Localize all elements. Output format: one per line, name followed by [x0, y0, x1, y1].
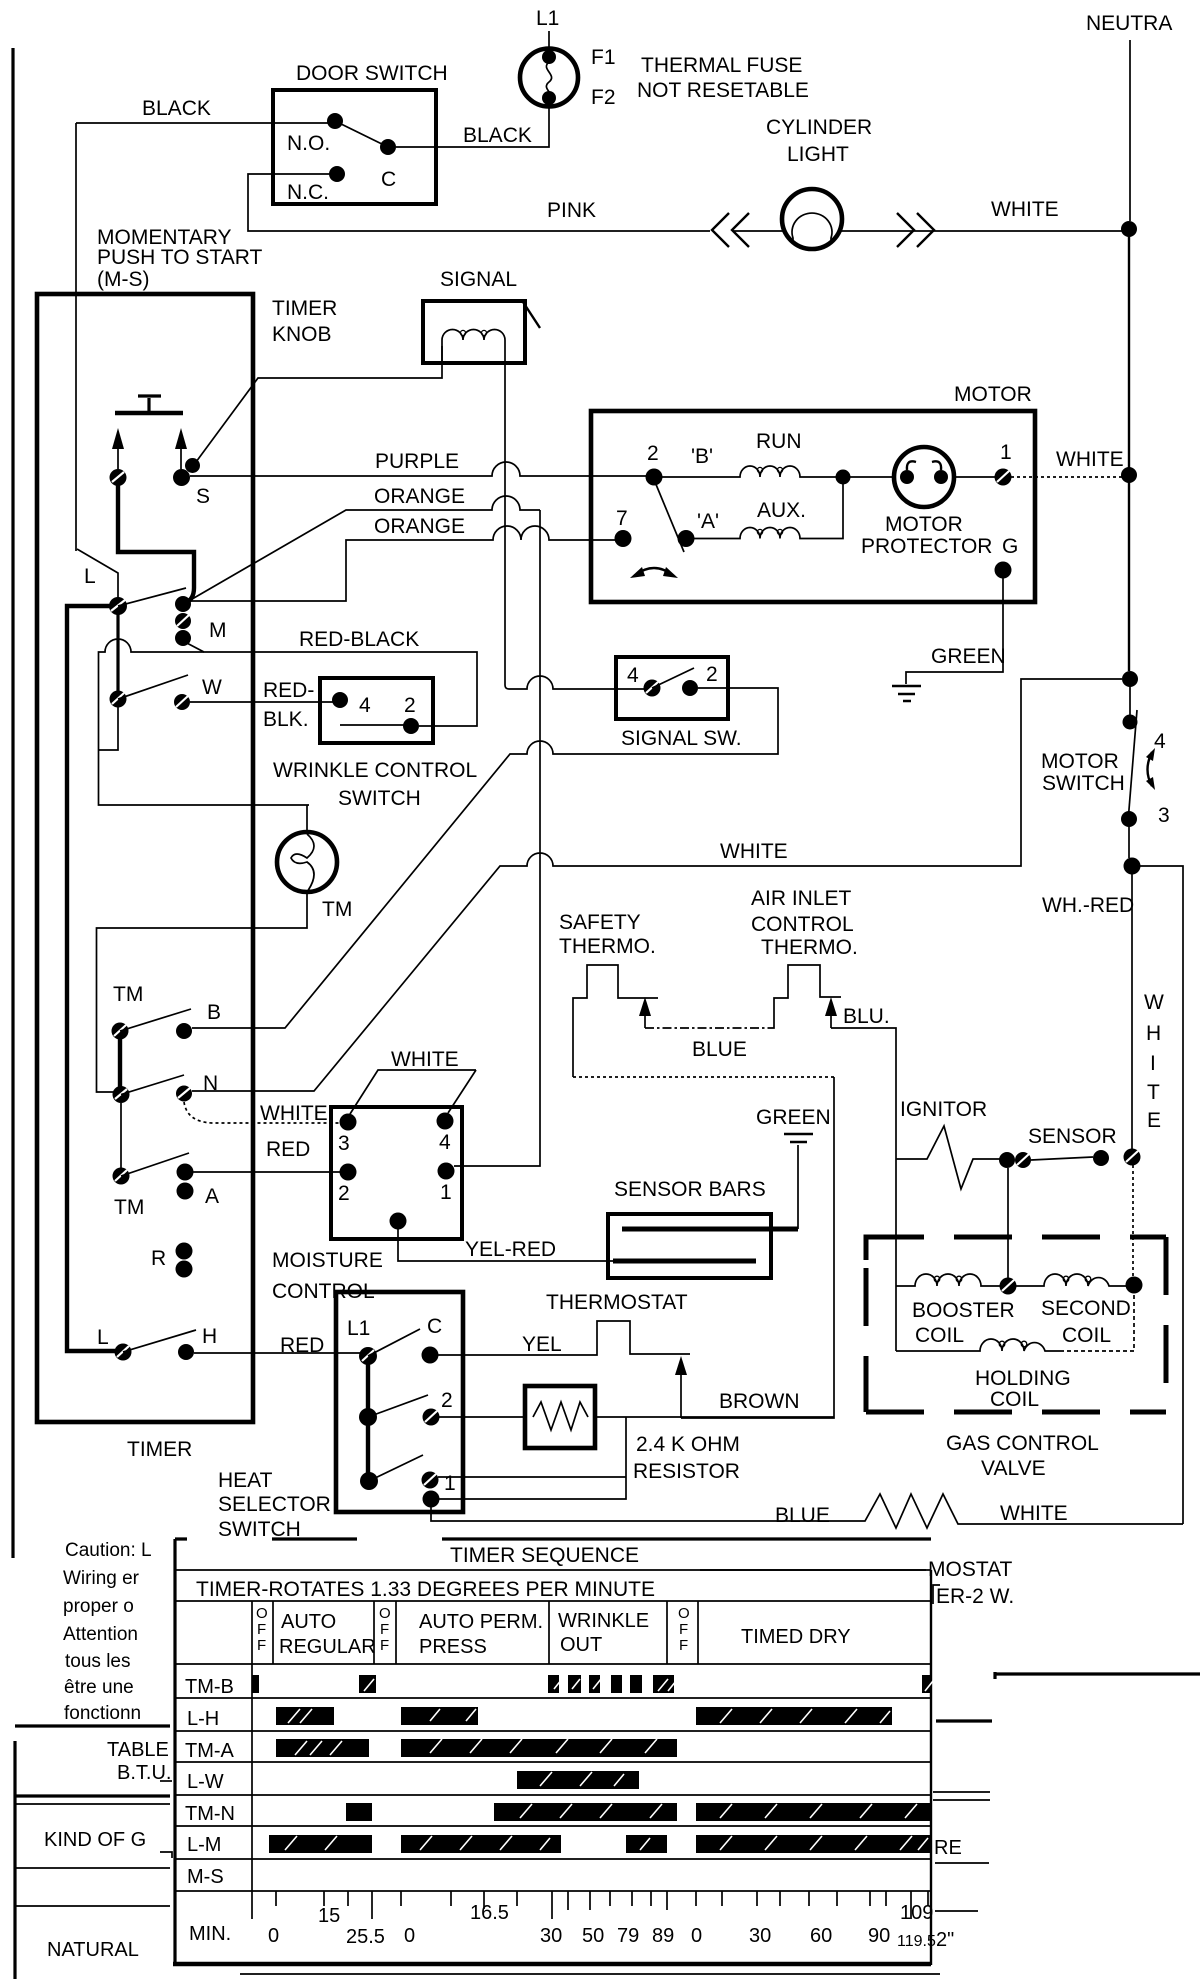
wrinkle control switch caption — [273, 759, 477, 810]
motor protector caption — [861, 513, 992, 558]
blade TM-A — [121, 1153, 189, 1176]
svg-text:WHITE: WHITE — [391, 1048, 459, 1071]
svg-text:TIMER SEQUENCE: TIMER SEQUENCE — [450, 1544, 639, 1567]
timer knob pointer line — [196, 346, 442, 462]
air inlet thermostat arrow — [825, 997, 837, 1028]
blade L-M — [118, 588, 186, 606]
svg-text:N: N — [203, 1072, 218, 1095]
thick link TM-B to N — [118, 1038, 122, 1088]
blade W — [118, 675, 188, 699]
header WRINKLE OUT — [558, 1610, 649, 1656]
svg-text:SELECTOR: SELECTOR — [218, 1493, 331, 1516]
svg-text:30: 30 — [749, 1925, 771, 1947]
moisture control box — [331, 1107, 462, 1239]
svg-text:RED-: RED- — [263, 679, 314, 702]
wire orange 1 drop to moisture 1 — [454, 510, 540, 1166]
moisture bottom terminal — [390, 1213, 407, 1230]
wire red H to heat selector L1 — [194, 1352, 360, 1354]
svg-text:BLK.: BLK. — [263, 708, 309, 731]
svg-text:4: 4 — [439, 1131, 451, 1154]
left table divider line 2 — [15, 1905, 170, 1907]
svg-text:16.5: 16.5 — [470, 1902, 509, 1924]
svg-text:PROTECTOR: PROTECTOR — [861, 535, 992, 558]
svg-text:15: 15 — [318, 1905, 340, 1927]
svg-text:COIL: COIL — [915, 1324, 964, 1347]
door switch N.C. terminal — [329, 166, 345, 182]
wire into cylinder light — [733, 230, 783, 232]
moisture control caption — [272, 1249, 383, 1303]
junction dot neutral-pink — [1121, 221, 1137, 237]
svg-text:I: I — [1150, 1052, 1156, 1075]
svg-text:1: 1 — [444, 1472, 456, 1495]
wire red A to moisture 2 — [193, 1171, 340, 1173]
blade N — [121, 1075, 184, 1095]
svg-text:C: C — [381, 168, 396, 191]
svg-text:TABLE: TABLE — [107, 1739, 169, 1761]
svg-text:MOSTAT: MOSTAT — [928, 1558, 1013, 1581]
svg-text:COIL: COIL — [1062, 1324, 1111, 1347]
timer sequence table frame — [173, 1539, 940, 1974]
sensor bars box — [608, 1214, 771, 1278]
motor switch contact 3 — [1121, 811, 1137, 827]
wire white from switch-4 junction — [192, 679, 1122, 1091]
svg-text:BROWN: BROWN — [719, 1390, 800, 1413]
L-W row bar — [517, 1771, 639, 1789]
right cut line fragment 3 — [935, 1862, 989, 1864]
right cut line fragments 2 — [933, 1792, 990, 1800]
wire W to wrinkle switch 4 — [190, 701, 334, 703]
svg-text:H: H — [202, 1325, 217, 1348]
svg-text:SAFETY: SAFETY — [559, 911, 641, 934]
heat selector 2 dot — [423, 1409, 440, 1426]
motor switch rotation arrow — [1146, 748, 1155, 790]
svg-text:WHITE: WHITE — [1056, 448, 1124, 471]
heat selector C dot — [422, 1347, 439, 1364]
safety thermostat symbol — [573, 965, 658, 1077]
svg-text:M: M — [209, 619, 227, 642]
wire sensor right down to second coil — [1132, 1165, 1134, 1278]
wire neutral gap fills — [1129, 686, 1130, 858]
booster coil — [896, 1274, 1000, 1286]
contact dot N-left — [113, 1086, 130, 1103]
svg-text:WH.-RED: WH.-RED — [1042, 894, 1134, 917]
wire neutral thin down to sensor — [1131, 874, 1133, 1152]
heat selector 1 dot — [422, 1472, 439, 1489]
svg-text:L1: L1 — [536, 7, 559, 30]
svg-text:1: 1 — [1000, 441, 1012, 464]
air inlet control thermo caption — [751, 887, 858, 959]
svg-text:60: 60 — [810, 1925, 832, 1947]
svg-text:SENSOR: SENSOR — [1028, 1125, 1117, 1148]
svg-text:'B': 'B' — [691, 445, 713, 468]
svg-text:WRINKLE: WRINKLE — [558, 1610, 649, 1632]
wrinkle control switch box — [320, 678, 433, 743]
svg-text:MIN.: MIN. — [189, 1923, 231, 1945]
chevrons right of cylinder light — [897, 213, 934, 247]
svg-text:TM-A: TM-A — [185, 1740, 235, 1762]
thermostat arrow — [675, 1356, 687, 1418]
svg-text:DOOR SWITCH: DOOR SWITCH — [296, 62, 448, 85]
svg-text:L-M: L-M — [187, 1834, 221, 1856]
contact dot W-left — [110, 691, 127, 708]
right cut table top border — [995, 1672, 1200, 1679]
blade L-H — [123, 1330, 196, 1352]
wire orange 2 — [191, 526, 616, 601]
contact dot W — [174, 694, 190, 710]
wire neutral down — [1128, 482, 1130, 671]
svg-text:BLUE: BLUE — [775, 1504, 830, 1527]
svg-text:L-W: L-W — [187, 1771, 224, 1793]
svg-text:2.4 K OHM: 2.4 K OHM — [636, 1433, 740, 1456]
wire protector leads — [850, 476, 996, 478]
svg-text:RE: RE — [934, 1837, 962, 1859]
contact dots A — [177, 1164, 194, 1200]
svg-text:HEAT: HEAT — [218, 1469, 273, 1492]
ground symbol (green) — [784, 1134, 813, 1229]
thick link L to W — [116, 614, 119, 694]
plunger arrow left — [112, 428, 124, 469]
svg-text:MOTOR: MOTOR — [954, 383, 1032, 406]
signal coil — [442, 330, 505, 363]
motor switch caption — [1041, 750, 1125, 795]
signal box — [423, 301, 525, 363]
heat selector blade low-1 — [369, 1455, 423, 1481]
momentary push to start caption — [97, 226, 262, 291]
safety thermo caption — [559, 911, 656, 958]
svg-text:M-S: M-S — [187, 1866, 224, 1888]
svg-text:2: 2 — [706, 663, 718, 686]
svg-text:TM-N: TM-N — [185, 1803, 235, 1825]
tick by B.T.U. — [160, 1780, 172, 1782]
TM-N row bars — [346, 1803, 931, 1821]
svg-text:MOTOR: MOTOR — [885, 513, 963, 536]
svg-text:4: 4 — [627, 664, 639, 687]
svg-text:GREEN: GREEN — [756, 1106, 831, 1129]
svg-text:YEL: YEL — [522, 1333, 562, 1356]
svg-text:2": 2" — [936, 1929, 954, 1951]
motor box — [591, 411, 1035, 602]
minute scale ticks — [252, 1891, 928, 1919]
svg-text:TIMER: TIMER — [272, 297, 337, 320]
wire signal switch return to TM-B — [192, 688, 778, 1028]
wire heat selector 1 loop — [438, 1476, 626, 1478]
wire N white to moisture 3 — [184, 1102, 340, 1123]
label RED-BLK. — [263, 679, 314, 731]
right cut line fragment 1 — [936, 1719, 992, 1722]
heat selector bottom terminal — [423, 1491, 440, 1508]
wire TM lamp bottom to N — [97, 892, 308, 1092]
svg-text:SENSOR BARS: SENSOR BARS — [614, 1178, 766, 1201]
wire safety thermo to brown riser — [573, 1076, 834, 1078]
cylinder light caption — [766, 116, 872, 166]
sensor contact dots right — [1093, 1149, 1141, 1167]
signal box corner tick — [523, 302, 540, 328]
contact dot TM-B — [112, 1023, 129, 1040]
svg-text:RESISTOR: RESISTOR — [633, 1460, 740, 1483]
junction dot run-aux — [836, 470, 851, 485]
svg-text:NATURAL: NATURAL — [47, 1939, 139, 1961]
header OFF 1 — [256, 1605, 268, 1654]
svg-text:COIL: COIL — [990, 1388, 1039, 1411]
svg-text:MOTOR: MOTOR — [1041, 750, 1119, 773]
svg-text:PURPLE: PURPLE — [375, 450, 459, 473]
wire blue to gas valve zigzag — [431, 1494, 1183, 1528]
svg-text:WHITE: WHITE — [1000, 1502, 1068, 1525]
thermal fuse caption — [637, 54, 809, 102]
motor terminal 1 — [995, 469, 1012, 486]
TM lamp — [277, 832, 337, 892]
svg-text:MOISTURE: MOISTURE — [272, 1249, 383, 1272]
wire L1 to thermal fuse — [548, 31, 550, 49]
svg-text:F: F — [257, 1637, 266, 1654]
heat selector L1 dot — [359, 1347, 377, 1365]
sensor contact dots left — [999, 1152, 1031, 1168]
svg-text:S: S — [196, 485, 210, 508]
svg-text:W: W — [1144, 991, 1164, 1014]
svg-text:109: 109 — [900, 1902, 933, 1924]
resistor box — [525, 1386, 595, 1448]
svg-text:(M-S): (M-S) — [97, 268, 149, 291]
timer knob caption — [272, 297, 337, 346]
svg-text:VALVE: VALVE — [981, 1457, 1046, 1480]
svg-text:2: 2 — [338, 1182, 350, 1205]
svg-text:GAS CONTROL: GAS CONTROL — [946, 1432, 1099, 1455]
wire yel-red to sensor bars — [398, 1229, 616, 1261]
svg-text:50: 50 — [582, 1925, 604, 1947]
svg-text:C: C — [427, 1315, 442, 1338]
signal switch terminal 4 — [644, 680, 661, 697]
booster coil caption — [912, 1299, 1015, 1347]
svg-text:LIGHT: LIGHT — [787, 143, 849, 166]
svg-text:TIMED DRY: TIMED DRY — [741, 1626, 851, 1648]
svg-text:SIGNAL SW.: SIGNAL SW. — [621, 727, 742, 750]
svg-text:KIND OF G: KIND OF G — [44, 1829, 146, 1851]
wire signal right lead down — [504, 343, 506, 685]
svg-text:2: 2 — [647, 442, 659, 465]
holding coil caption — [975, 1367, 1071, 1411]
wire resistor to brown riser — [595, 1416, 834, 1418]
signal switch terminal 2 — [682, 680, 698, 696]
run winding coil — [662, 466, 836, 477]
minute scale numbers — [268, 1902, 933, 1948]
heat selector caption — [218, 1469, 331, 1541]
door switch blade — [335, 121, 388, 147]
svg-text:0: 0 — [404, 1925, 415, 1947]
svg-text:YEL-RED: YEL-RED — [465, 1238, 556, 1261]
svg-text:NOT RESETABLE: NOT RESETABLE — [637, 79, 809, 102]
svg-text:G: G — [1002, 535, 1018, 558]
wire neutral mid — [1128, 236, 1130, 468]
svg-text:fonctionn: fonctionn — [64, 1703, 141, 1724]
thin link N to TM-A — [120, 1103, 122, 1168]
svg-text:Attention: Attention — [63, 1624, 138, 1645]
svg-text:L: L — [84, 565, 96, 588]
svg-text:BLU.: BLU. — [843, 1005, 890, 1028]
second coil caption — [1041, 1297, 1131, 1347]
svg-text:1: 1 — [440, 1181, 452, 1204]
svg-text:F: F — [679, 1621, 688, 1638]
blade TM-B — [120, 1009, 191, 1031]
motor blade 2-A — [655, 482, 684, 552]
svg-text:R: R — [151, 1247, 166, 1270]
TM-B row bars — [252, 1675, 931, 1693]
svg-text:KNOB: KNOB — [272, 323, 332, 346]
caution text block — [63, 1540, 152, 1724]
svg-text:être une: être une — [64, 1677, 134, 1698]
second coil — [1016, 1274, 1127, 1286]
svg-text:tous les: tous les — [65, 1651, 130, 1672]
header OFF 3 — [678, 1605, 690, 1654]
svg-text:THERMOSTAT: THERMOSTAT — [546, 1291, 688, 1314]
wire orange 1 — [187, 496, 540, 602]
contact dot H — [178, 1344, 194, 1360]
heat selector blade L1-C — [368, 1329, 420, 1356]
svg-text:TIMER: TIMER — [127, 1438, 192, 1461]
door switch C terminal — [380, 139, 396, 155]
wrinkle blade — [340, 724, 404, 726]
svg-text:TM: TM — [322, 898, 352, 921]
svg-text:O: O — [379, 1605, 391, 1622]
junction dot booster-second — [1000, 1278, 1017, 1295]
svg-text:0: 0 — [691, 1925, 702, 1947]
svg-text:CYLINDER: CYLINDER — [766, 116, 872, 139]
thermal fuse F1-F2 — [520, 49, 578, 107]
moisture terminal 4 — [437, 1113, 454, 1130]
svg-text:'A': 'A' — [697, 510, 719, 533]
heat selector mid dot — [359, 1408, 377, 1426]
wire blu down left side of valve — [895, 1159, 897, 1351]
header column dividers — [252, 1601, 698, 1891]
svg-text:SIGNAL: SIGNAL — [440, 268, 517, 291]
right margin bracket — [933, 1585, 940, 1604]
svg-text:F: F — [380, 1637, 389, 1654]
left page border line — [13, 48, 15, 1979]
wire sensor left down to coils — [1007, 1168, 1009, 1279]
heat selector blade mid-2 — [368, 1395, 428, 1417]
contact dot B — [176, 1023, 192, 1039]
wire signal to signal switch 4 — [505, 676, 645, 689]
wire heat selector 2 to resistor — [439, 1416, 525, 1418]
svg-text:PUSH TO START: PUSH TO START — [97, 246, 262, 269]
svg-text:AIR INLET: AIR INLET — [751, 887, 852, 910]
svg-text:SECOND: SECOND — [1041, 1297, 1131, 1320]
wire out of cylinder light — [841, 230, 1122, 232]
wire white right drop — [1132, 866, 1183, 1524]
sensor link wire — [1031, 1157, 1093, 1160]
wire fuse to door switch C — [396, 107, 549, 147]
moisture terminal 1 — [438, 1163, 455, 1180]
left table divider lines — [15, 1794, 170, 1797]
svg-text:PRESS: PRESS — [419, 1636, 487, 1658]
svg-text:T: T — [1147, 1081, 1160, 1104]
header OFF 2 — [379, 1605, 391, 1654]
svg-text:IGNITOR: IGNITOR — [900, 1098, 987, 1121]
L-H row bars — [276, 1707, 892, 1725]
right margin wire to MOSTAT — [700, 1569, 926, 1571]
svg-text:F: F — [257, 1621, 266, 1638]
svg-text:BLACK: BLACK — [142, 97, 211, 120]
svg-text:TM: TM — [113, 983, 143, 1006]
wire red-black left branch — [99, 639, 310, 805]
wire TM lamp top — [306, 805, 308, 832]
junction dot motor switch top — [1122, 671, 1138, 687]
svg-text:F: F — [679, 1637, 688, 1654]
svg-text:WHITE: WHITE — [991, 198, 1059, 221]
svg-text:OUT: OUT — [560, 1634, 602, 1656]
svg-text:2: 2 — [404, 694, 416, 717]
wire black diagonal to L — [77, 549, 118, 598]
aux winding coil — [694, 484, 843, 539]
svg-text:E: E — [1147, 1109, 1161, 1132]
wire red-black from M — [183, 641, 477, 726]
wire resistor return loop — [439, 1417, 626, 1499]
svg-text:RED: RED — [280, 1334, 324, 1357]
motor terminal 'A' — [678, 530, 695, 547]
svg-text:3: 3 — [338, 1132, 350, 1155]
contact dot TM-A — [113, 1168, 130, 1185]
svg-text:AUTO: AUTO — [281, 1611, 336, 1633]
wire green to ground — [906, 578, 1003, 684]
heat selector low dot — [360, 1472, 378, 1490]
wire yel C to thermostat — [438, 1321, 690, 1355]
bar hatch texture — [285, 1679, 933, 1850]
motor protector — [894, 447, 954, 507]
junction dot wh-red — [1124, 858, 1141, 875]
svg-text:ORANGE: ORANGE — [374, 485, 465, 508]
motor terminal 7 — [615, 530, 632, 547]
svg-text:WHITE: WHITE — [260, 1102, 328, 1125]
plunger arrow right — [175, 428, 187, 469]
svg-text:N.C.: N.C. — [287, 181, 329, 204]
svg-text:F: F — [380, 1621, 389, 1638]
wrinkle terminal 4 — [332, 692, 348, 708]
svg-text:REGULAR: REGULAR — [279, 1636, 376, 1658]
second coil end dot — [1126, 1277, 1143, 1294]
svg-text:HOLDING: HOLDING — [975, 1367, 1071, 1390]
left table divider thick — [15, 1724, 170, 1727]
svg-text:BLUE: BLUE — [692, 1038, 747, 1061]
svg-text:L-H: L-H — [187, 1708, 219, 1730]
label WHITE with fork — [350, 1048, 476, 1114]
svg-text:O: O — [678, 1605, 690, 1622]
svg-text:Wiring er: Wiring er — [63, 1568, 140, 1589]
tick by KIND OF G — [160, 1852, 172, 1858]
heat selector switch box — [336, 1292, 463, 1512]
svg-text:TM-B: TM-B — [185, 1676, 234, 1698]
knob link dot — [185, 458, 200, 473]
gas control valve dashed box — [866, 1237, 1166, 1412]
svg-text:3: 3 — [1158, 804, 1170, 827]
svg-text:25.5: 25.5 — [346, 1926, 385, 1948]
resistor element — [533, 1402, 588, 1430]
wire L feed left and down — [67, 606, 116, 1351]
contact dot L — [109, 597, 127, 615]
svg-text:L: L — [97, 1326, 109, 1349]
motor switch blade — [1128, 710, 1137, 822]
svg-text:Caution: L: Caution: L — [65, 1540, 152, 1561]
contact dots R — [176, 1243, 193, 1278]
svg-text:119.5: 119.5 — [897, 1933, 936, 1950]
TM-A row bars — [276, 1739, 677, 1757]
svg-text:4: 4 — [1154, 730, 1166, 753]
left table divider line — [15, 1867, 170, 1869]
svg-text:THERMO.: THERMO. — [559, 935, 656, 958]
resistor caption — [633, 1433, 740, 1483]
sensor bar bottom — [613, 1259, 756, 1264]
svg-text:N.O.: N.O. — [287, 132, 330, 155]
wire motor 1 to neutral — [1011, 476, 1122, 478]
contact dots M — [175, 596, 191, 646]
